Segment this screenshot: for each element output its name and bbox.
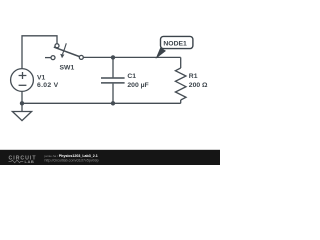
wire capacitor top lead	[112, 57, 114, 77]
branding bar	[0, 150, 220, 165]
svg-text:200 µF: 200 µF	[127, 82, 148, 89]
svg-text:LAB: LAB	[25, 159, 35, 164]
SW1 common terminal	[79, 55, 83, 59]
svg-text:http://circuitlab.com/c6zt7v5p: http://circuitlab.com/c6zt7v5pvb9p	[45, 159, 99, 163]
svg-text:jamie.ha / Physics1203_Lab3_2.: jamie.ha / Physics1203_Lab3_2.1	[44, 154, 98, 158]
capacitor C1	[101, 78, 125, 83]
node NODE1 flag pointer	[156, 47, 166, 59]
ground	[12, 103, 31, 120]
switch SW1	[45, 43, 83, 59]
voltage source V1	[11, 69, 34, 92]
junction node (top, capacitor tap)	[111, 55, 115, 59]
svg-text:V1: V1	[37, 74, 46, 81]
svg-text:SW1: SW1	[60, 65, 75, 72]
svg-text:NODE1: NODE1	[163, 41, 187, 48]
SW1 throw terminal (top, connected)	[55, 44, 59, 48]
wire R1 bottom lead	[180, 100, 182, 103]
svg-text:6.02 V: 6.02 V	[37, 82, 59, 89]
svg-text:200 Ω: 200 Ω	[189, 82, 208, 89]
wire switch common to right corner	[83, 56, 180, 58]
wire right branch down to R1	[180, 57, 182, 68]
wire V1 top to corner	[22, 36, 57, 69]
wire capacitor bottom lead	[112, 84, 114, 104]
SW1 throw terminal (lower-left, open) with stub	[45, 57, 51, 59]
wire V1 bottom	[21, 92, 23, 104]
svg-text:R1: R1	[189, 73, 198, 80]
svg-text:C1: C1	[127, 73, 136, 80]
wire bottom rail	[22, 102, 181, 104]
CircuitLab logo: resistor squiggle	[9, 160, 24, 163]
junction node (bottom, capacitor)	[111, 101, 115, 105]
node NODE1 flag box	[161, 36, 193, 48]
resistor R1	[175, 68, 186, 100]
junction node (bottom, V1)	[20, 101, 24, 105]
SW1 blade	[54, 47, 79, 56]
SW1 actuator arrow	[63, 43, 67, 54]
